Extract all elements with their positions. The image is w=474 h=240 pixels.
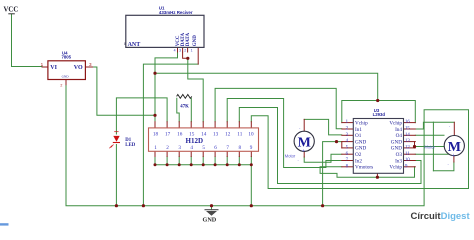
- svg-text:1: 1: [154, 145, 157, 151]
- svg-text:In4: In4: [395, 127, 402, 133]
- svg-text:9: 9: [250, 145, 253, 151]
- svg-text:GND: GND: [203, 217, 217, 224]
- svg-text:VI: VI: [50, 65, 57, 71]
- svg-text:13: 13: [405, 139, 410, 144]
- svg-text:GND: GND: [193, 35, 198, 47]
- svg-text:Motor: Motor: [424, 145, 435, 150]
- svg-text:O1: O1: [355, 133, 362, 139]
- svg-text:7: 7: [226, 145, 229, 151]
- svg-text:1: 1: [41, 62, 44, 67]
- svg-text:5: 5: [202, 145, 205, 151]
- svg-text:O2: O2: [355, 152, 362, 158]
- svg-text:12: 12: [405, 146, 410, 151]
- svg-text:+: +: [452, 153, 455, 159]
- svg-text:4: 4: [190, 145, 193, 151]
- svg-text:16: 16: [177, 132, 183, 138]
- svg-text:2: 2: [184, 49, 186, 53]
- svg-text:VCC: VCC: [4, 7, 19, 14]
- svg-text:In3: In3: [395, 158, 402, 164]
- svg-text:10: 10: [248, 132, 254, 138]
- svg-text:+: +: [302, 149, 305, 155]
- svg-text:VO: VO: [74, 65, 83, 71]
- svg-text:GND: GND: [62, 75, 70, 79]
- svg-text:O4: O4: [396, 133, 403, 139]
- svg-text:1: 1: [191, 49, 193, 53]
- svg-text:GND: GND: [355, 139, 366, 145]
- svg-text:GND: GND: [391, 139, 402, 145]
- svg-text:Vchip: Vchip: [389, 165, 402, 171]
- svg-text:47K: 47K: [180, 105, 189, 110]
- svg-text:18: 18: [153, 132, 159, 138]
- svg-text:7805: 7805: [62, 55, 72, 60]
- svg-text:LED: LED: [125, 143, 135, 148]
- svg-text:11: 11: [237, 132, 242, 138]
- svg-text:17: 17: [165, 132, 171, 138]
- svg-text:CírcuitDigest: CírcuitDigest: [411, 211, 471, 222]
- svg-text:GND: GND: [355, 146, 366, 152]
- svg-text:Vchip: Vchip: [389, 120, 402, 126]
- svg-text:ANT: ANT: [128, 42, 141, 48]
- svg-text:2: 2: [60, 83, 62, 87]
- svg-text:3: 3: [178, 145, 181, 151]
- svg-text:Motor: Motor: [285, 154, 296, 159]
- svg-text:3: 3: [179, 49, 181, 53]
- svg-text:H12D: H12D: [186, 137, 204, 145]
- svg-text:13: 13: [213, 132, 219, 138]
- svg-text:10: 10: [405, 158, 410, 163]
- svg-text:16: 16: [405, 120, 410, 125]
- svg-text:3: 3: [89, 62, 92, 67]
- svg-text:O3: O3: [396, 152, 403, 158]
- svg-text:14: 14: [405, 133, 410, 138]
- svg-text:433mHz Reciver: 433mHz Reciver: [159, 10, 193, 15]
- svg-text:6: 6: [214, 145, 217, 151]
- svg-text:In2: In2: [355, 158, 362, 164]
- svg-text:In1: In1: [355, 127, 362, 133]
- svg-text:L293d: L293d: [373, 112, 386, 117]
- svg-text:15: 15: [405, 127, 410, 132]
- svg-text:4: 4: [174, 49, 176, 53]
- svg-text:GND: GND: [391, 146, 402, 152]
- svg-text:11: 11: [405, 152, 410, 157]
- svg-text:12: 12: [225, 132, 231, 138]
- svg-text:2: 2: [166, 145, 169, 151]
- svg-text:Vchip: Vchip: [355, 120, 368, 126]
- svg-text:8: 8: [239, 145, 242, 151]
- svg-text:DATA: DATA: [186, 32, 191, 46]
- svg-text:Vmotors: Vmotors: [355, 165, 373, 171]
- svg-text:8: 8: [124, 42, 126, 46]
